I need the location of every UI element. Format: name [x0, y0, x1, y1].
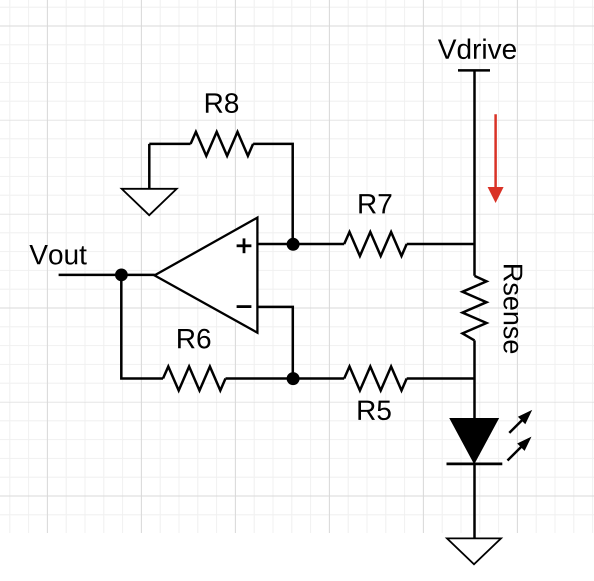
wire R5 to Vdrive rail: [407, 377, 475, 380]
label R8: [206, 93, 238, 113]
resistor Rsense: [463, 276, 487, 341]
ground (LED): [447, 538, 501, 564]
label R7: [359, 194, 391, 213]
label R5: [358, 401, 390, 421]
node junction at op-amp + input: [287, 238, 300, 251]
wire op-amp output to Vout: [59, 274, 155, 277]
current direction arrow: [488, 114, 504, 203]
label Rsense (rotated): [503, 265, 522, 353]
wire R6 to R5/R6 node: [226, 377, 294, 380]
wire feedback from output node down to R6: [121, 275, 163, 379]
wire R5 left lead: [293, 377, 344, 380]
wire LED to ground: [473, 463, 476, 539]
wire Rsense to R5 node: [473, 340, 476, 378]
net label Vout: [29, 245, 86, 265]
net label Vdrive: [438, 39, 516, 60]
ground (R8): [122, 189, 177, 215]
wire R8 left lead: [149, 143, 190, 146]
label R6: [178, 329, 210, 349]
LED D1 cathode bar: [447, 462, 503, 465]
LED light arrow upper: [509, 410, 532, 433]
node junction at op-amp output: [115, 269, 128, 282]
wire op-amp + input to R7: [257, 243, 344, 246]
node Vdrive terminal bar: [458, 69, 490, 72]
wire Vdrive to Rsense: [473, 70, 476, 275]
resistor R8: [191, 132, 254, 156]
LED light arrow lower: [508, 437, 532, 461]
wire op-amp - input to R5/R6 node: [257, 307, 292, 379]
node junction R5/R6/inverting input: [287, 372, 300, 385]
wire R8 left to ground: [148, 144, 151, 189]
op-amp U1 body: [155, 218, 258, 333]
wire R5 node to LED: [473, 379, 476, 420]
resistor R7: [344, 232, 407, 256]
wire R8 right lead to + node: [253, 144, 293, 244]
LED D1 body: [451, 419, 498, 462]
op-amp plus input marker: [237, 238, 252, 253]
resistor R5: [344, 367, 407, 391]
resistor R6: [163, 367, 226, 391]
wire R7 to Vdrive rail: [407, 243, 475, 246]
op-amp minus input marker: [237, 305, 252, 308]
